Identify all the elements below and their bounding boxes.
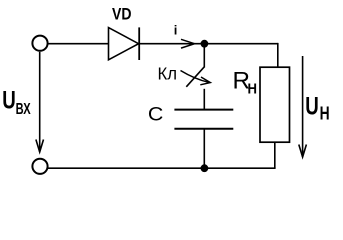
switch Кл closing-motion arc — [181, 71, 210, 83]
terminal lower-left input — [32, 159, 47, 174]
bottom rail wire — [48, 167, 276, 169]
svg-text:C: C — [148, 104, 164, 126]
wire vertical between input terminals (Uвх direction) — [39, 52, 41, 152]
svg-text:ВХ: ВХ — [16, 101, 31, 118]
svg-text:VD: VD — [112, 5, 132, 24]
wire capacitor bottom plate to bottom rail — [203, 129, 205, 169]
wire corner top right down to resistor — [277, 43, 279, 67]
svg-text:U: U — [305, 93, 319, 121]
wire resistor bottom stub — [274, 142, 276, 168]
node top junction — [201, 40, 209, 48]
wire top left segment (terminal to diode) — [48, 43, 109, 45]
capacitor C bottom plate — [174, 128, 233, 130]
switch Кл top stub — [203, 44, 205, 68]
capacitor C top plate — [174, 109, 233, 111]
switch Кл lever (open, tilted left) — [186, 67, 204, 87]
resistor RН body — [260, 67, 290, 142]
svg-text:Кл: Кл — [158, 64, 178, 84]
voltage arrow Uн arrowhead — [299, 145, 307, 158]
current arrow i on top wire — [181, 39, 195, 48]
wire top right segment (diode to corner) — [139, 43, 278, 45]
diode VD cathode bar — [138, 27, 140, 60]
svg-text:i: i — [174, 22, 178, 37]
terminal upper-left input — [32, 36, 47, 51]
switch Кл arc arrowhead — [200, 77, 210, 85]
voltage arrow Uн line — [302, 56, 304, 157]
node bottom junction — [201, 164, 209, 172]
svg-text:Н: Н — [320, 103, 330, 123]
svg-text:Н: Н — [248, 80, 258, 97]
arrowhead of Uвх pointing down — [36, 140, 44, 153]
svg-text:U: U — [2, 87, 16, 115]
switch Кл bottom stub — [203, 89, 205, 110]
diode VD triangle — [109, 28, 139, 60]
